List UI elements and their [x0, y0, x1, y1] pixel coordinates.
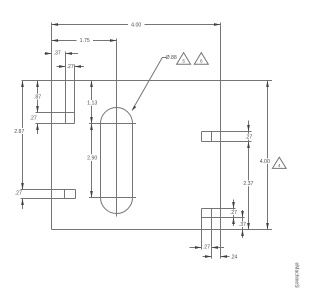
arrow .24 left points right: [205, 255, 212, 258]
arrow 2.37 down: [247, 223, 250, 230]
svg-text:2.90: 2.90: [87, 156, 97, 162]
dim line .37 right lower: [242, 210, 244, 238]
dim line 1.13 / 2.90: [91, 81, 93, 198]
arrow left 4.00 top: [52, 23, 59, 26]
svg-text:6: 6: [200, 59, 203, 64]
arrow 2.87 up: [21, 81, 24, 88]
svg-text:4.00: 4.00: [260, 159, 270, 165]
arrow .37 down: [241, 211, 244, 218]
arrow 4.00 right down: [266, 223, 269, 230]
notch L2 top line + extension: [21, 189, 76, 191]
arrow .37 left points right: [45, 52, 52, 55]
notch L2 right closure: [75, 190, 77, 199]
arrow .27 top right points left: [75, 65, 82, 68]
svg-text:4: 4: [278, 163, 281, 168]
svg-text:.27: .27: [30, 116, 37, 122]
arrow .27 bottom left points right: [195, 246, 202, 249]
svg-text:1.75: 1.75: [80, 38, 90, 44]
dim line 1.75: [52, 40, 117, 42]
arrow 2.90 up: [90, 124, 93, 131]
leader arrowhead: [132, 106, 136, 111]
svg-text:.27: .27: [15, 190, 22, 196]
arrow 1.13 up: [90, 81, 93, 88]
notch R1 left closure: [201, 132, 203, 142]
svg-text:.27: .27: [67, 64, 74, 70]
svg-text:.87: .87: [34, 95, 41, 101]
arrow .37 right points left: [66, 52, 73, 55]
dim line 4.00 top: [52, 24, 221, 26]
part right edge with extensions above and below: [220, 23, 222, 259]
svg-text:1.13: 1.13: [87, 101, 97, 107]
notch R2 left closure + extension down: [201, 209, 203, 250]
arrow .27 left upper points up: [36, 124, 39, 131]
part bottom edge with extension line: [52, 229, 273, 231]
svg-text:5: 5: [182, 59, 185, 64]
notch L1 bottom line + extension: [36, 123, 75, 125]
datum triangle 6: [194, 53, 208, 65]
arrow right 1.75: [110, 39, 117, 42]
datum triangle 4: [272, 157, 286, 168]
svg-text:.24: .24: [230, 254, 237, 260]
dim line .24 bottom tails: [203, 256, 230, 258]
notch L1 right closure + extension up: [74, 65, 76, 124]
svg-text:Ø.88: Ø.88: [166, 55, 177, 61]
notch R1 bottom line + extension: [202, 141, 252, 143]
arrow .87 down: [36, 106, 39, 113]
svg-text:.27: .27: [203, 245, 210, 251]
notch R2 top line + extension: [202, 208, 236, 210]
part top edge with extension lines: [22, 80, 273, 82]
arrow .27 right upper points down: [247, 125, 250, 132]
arrow .27 left lower points up: [21, 199, 24, 206]
svg-text:.27: .27: [230, 210, 237, 216]
notch R2 bottom line + extension: [202, 217, 245, 219]
arrow 2.90 down: [90, 191, 93, 198]
svg-text:.37: .37: [239, 222, 246, 228]
svg-text:.37: .37: [54, 51, 61, 57]
dim line .27 top tails: [57, 66, 85, 68]
arrow .27 top left points right: [59, 65, 66, 68]
svg-text:4.00: 4.00: [131, 22, 141, 28]
notch R1 divider: [211, 132, 213, 142]
notch R1 top line + extension: [202, 131, 252, 133]
svg-text:2.87: 2.87: [14, 129, 24, 135]
arrow .27 R2 down: [232, 202, 235, 209]
dim line .37 top tails: [45, 53, 79, 55]
datum triangle 5: [177, 53, 191, 65]
dim line .27 left upper tail: [37, 124, 39, 135]
notch L1 divider + extension up: [65, 52, 67, 124]
arrow 2.37 up: [247, 142, 250, 149]
dim line .27 / 2.37 right: [248, 121, 250, 230]
arrow 1.13 down: [90, 117, 93, 124]
notch L2 bottom line + extension: [21, 198, 76, 200]
slot top center cross line: [89, 123, 136, 125]
dim line .27 right lower: [233, 200, 235, 227]
svg-text:eMachineShop: eMachineShop: [293, 263, 299, 288]
dim line .27 bottom tails: [190, 247, 225, 249]
part left edge with extension above: [51, 23, 53, 230]
leader line for diameter callout: [132, 58, 166, 111]
arrow 4.00 right up: [266, 81, 269, 88]
notch R2 divider + extension down: [211, 209, 213, 259]
arrow .27 bottom right points left: [212, 246, 219, 249]
arrow right 4.00 top: [214, 23, 221, 26]
arrow .87 up: [36, 81, 39, 88]
arrow 2.87 down: [21, 183, 24, 190]
arrow .37 up: [241, 230, 244, 237]
slot (stadium obround): [101, 108, 133, 214]
notch L1 top line + extension: [36, 112, 75, 114]
notch L2 divider: [64, 190, 66, 199]
arrow .27 R2 up: [232, 218, 235, 225]
svg-text:2.37: 2.37: [243, 181, 253, 187]
svg-text:.27: .27: [245, 134, 252, 140]
slot vertical centerline + extension up: [116, 39, 118, 217]
dim line .87 left: [37, 81, 39, 113]
dim line 4.00 right: [267, 81, 269, 230]
arrow .24 right points left: [221, 255, 228, 258]
slot bottom center cross line: [89, 197, 136, 199]
dim line 2.87 and .27 left lower: [22, 81, 24, 210]
arrow left 1.75: [52, 39, 59, 42]
